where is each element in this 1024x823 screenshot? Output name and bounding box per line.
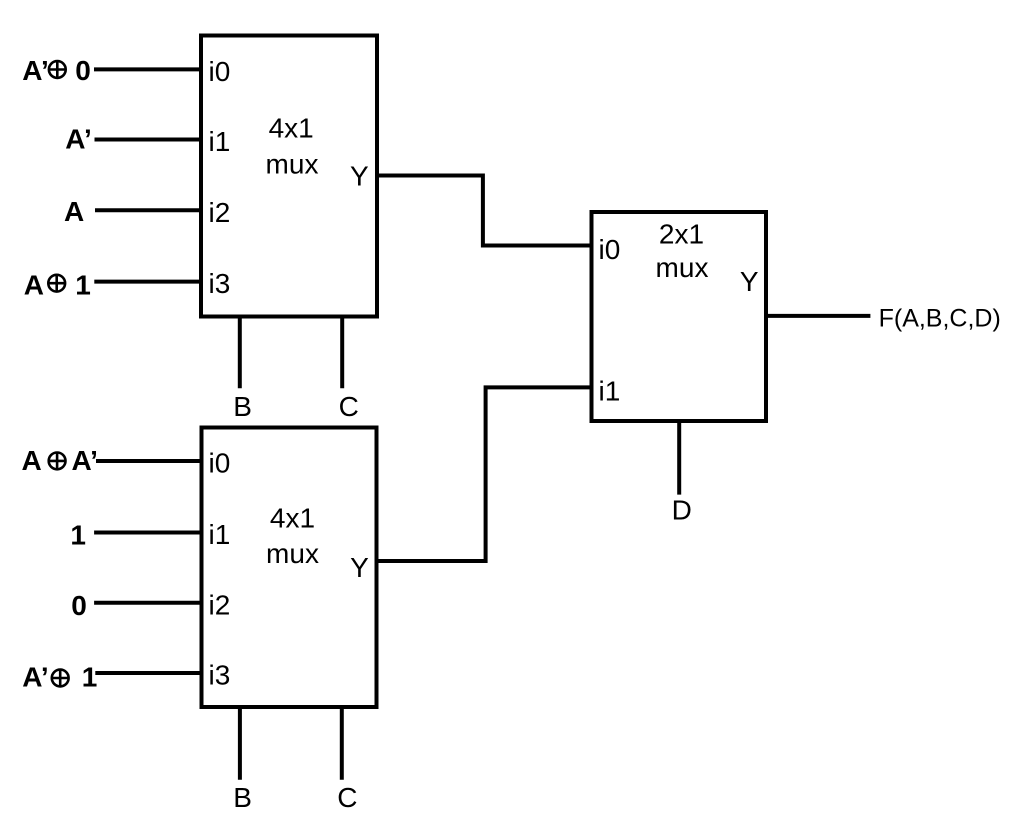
- svg-text:mux: mux: [656, 252, 709, 283]
- svg-text:C: C: [339, 391, 359, 422]
- svg-text:A: A: [22, 445, 42, 476]
- svg-text:4x1: 4x1: [270, 503, 315, 534]
- svg-text:i2: i2: [209, 589, 231, 620]
- svg-text:i3: i3: [209, 660, 231, 691]
- svg-text:i1: i1: [209, 126, 231, 157]
- svg-text:mux: mux: [266, 149, 319, 180]
- svg-text:1: 1: [82, 662, 98, 693]
- svg-text:i0: i0: [209, 448, 231, 479]
- svg-text:A’: A’: [22, 662, 48, 693]
- svg-text:i2: i2: [209, 197, 231, 228]
- svg-text:B: B: [233, 782, 252, 813]
- svg-text:1: 1: [70, 519, 86, 550]
- svg-text:C: C: [337, 782, 357, 813]
- svg-text:i0: i0: [209, 56, 231, 87]
- svg-text:D: D: [672, 494, 692, 525]
- svg-text:2x1: 2x1: [659, 219, 704, 250]
- svg-text:mux: mux: [266, 538, 319, 569]
- svg-text:A’: A’: [72, 445, 98, 476]
- svg-text:F(A,B,C,D): F(A,B,C,D): [879, 304, 1001, 332]
- svg-text:1: 1: [75, 270, 91, 301]
- svg-text:i1: i1: [599, 376, 621, 407]
- svg-text:A’: A’: [22, 55, 48, 86]
- svg-text:Y: Y: [350, 160, 369, 191]
- svg-text:i0: i0: [599, 234, 621, 265]
- svg-text:Y: Y: [740, 266, 759, 297]
- svg-text:i3: i3: [209, 268, 231, 299]
- svg-text:A: A: [24, 270, 44, 301]
- svg-text:0: 0: [71, 590, 87, 621]
- svg-text:Y: Y: [350, 552, 369, 583]
- svg-text:A’: A’: [65, 124, 91, 155]
- svg-text:A: A: [64, 196, 84, 227]
- svg-text:B: B: [233, 391, 252, 422]
- svg-text:0: 0: [75, 55, 91, 86]
- svg-text:4x1: 4x1: [269, 113, 314, 144]
- svg-text:i1: i1: [209, 519, 231, 550]
